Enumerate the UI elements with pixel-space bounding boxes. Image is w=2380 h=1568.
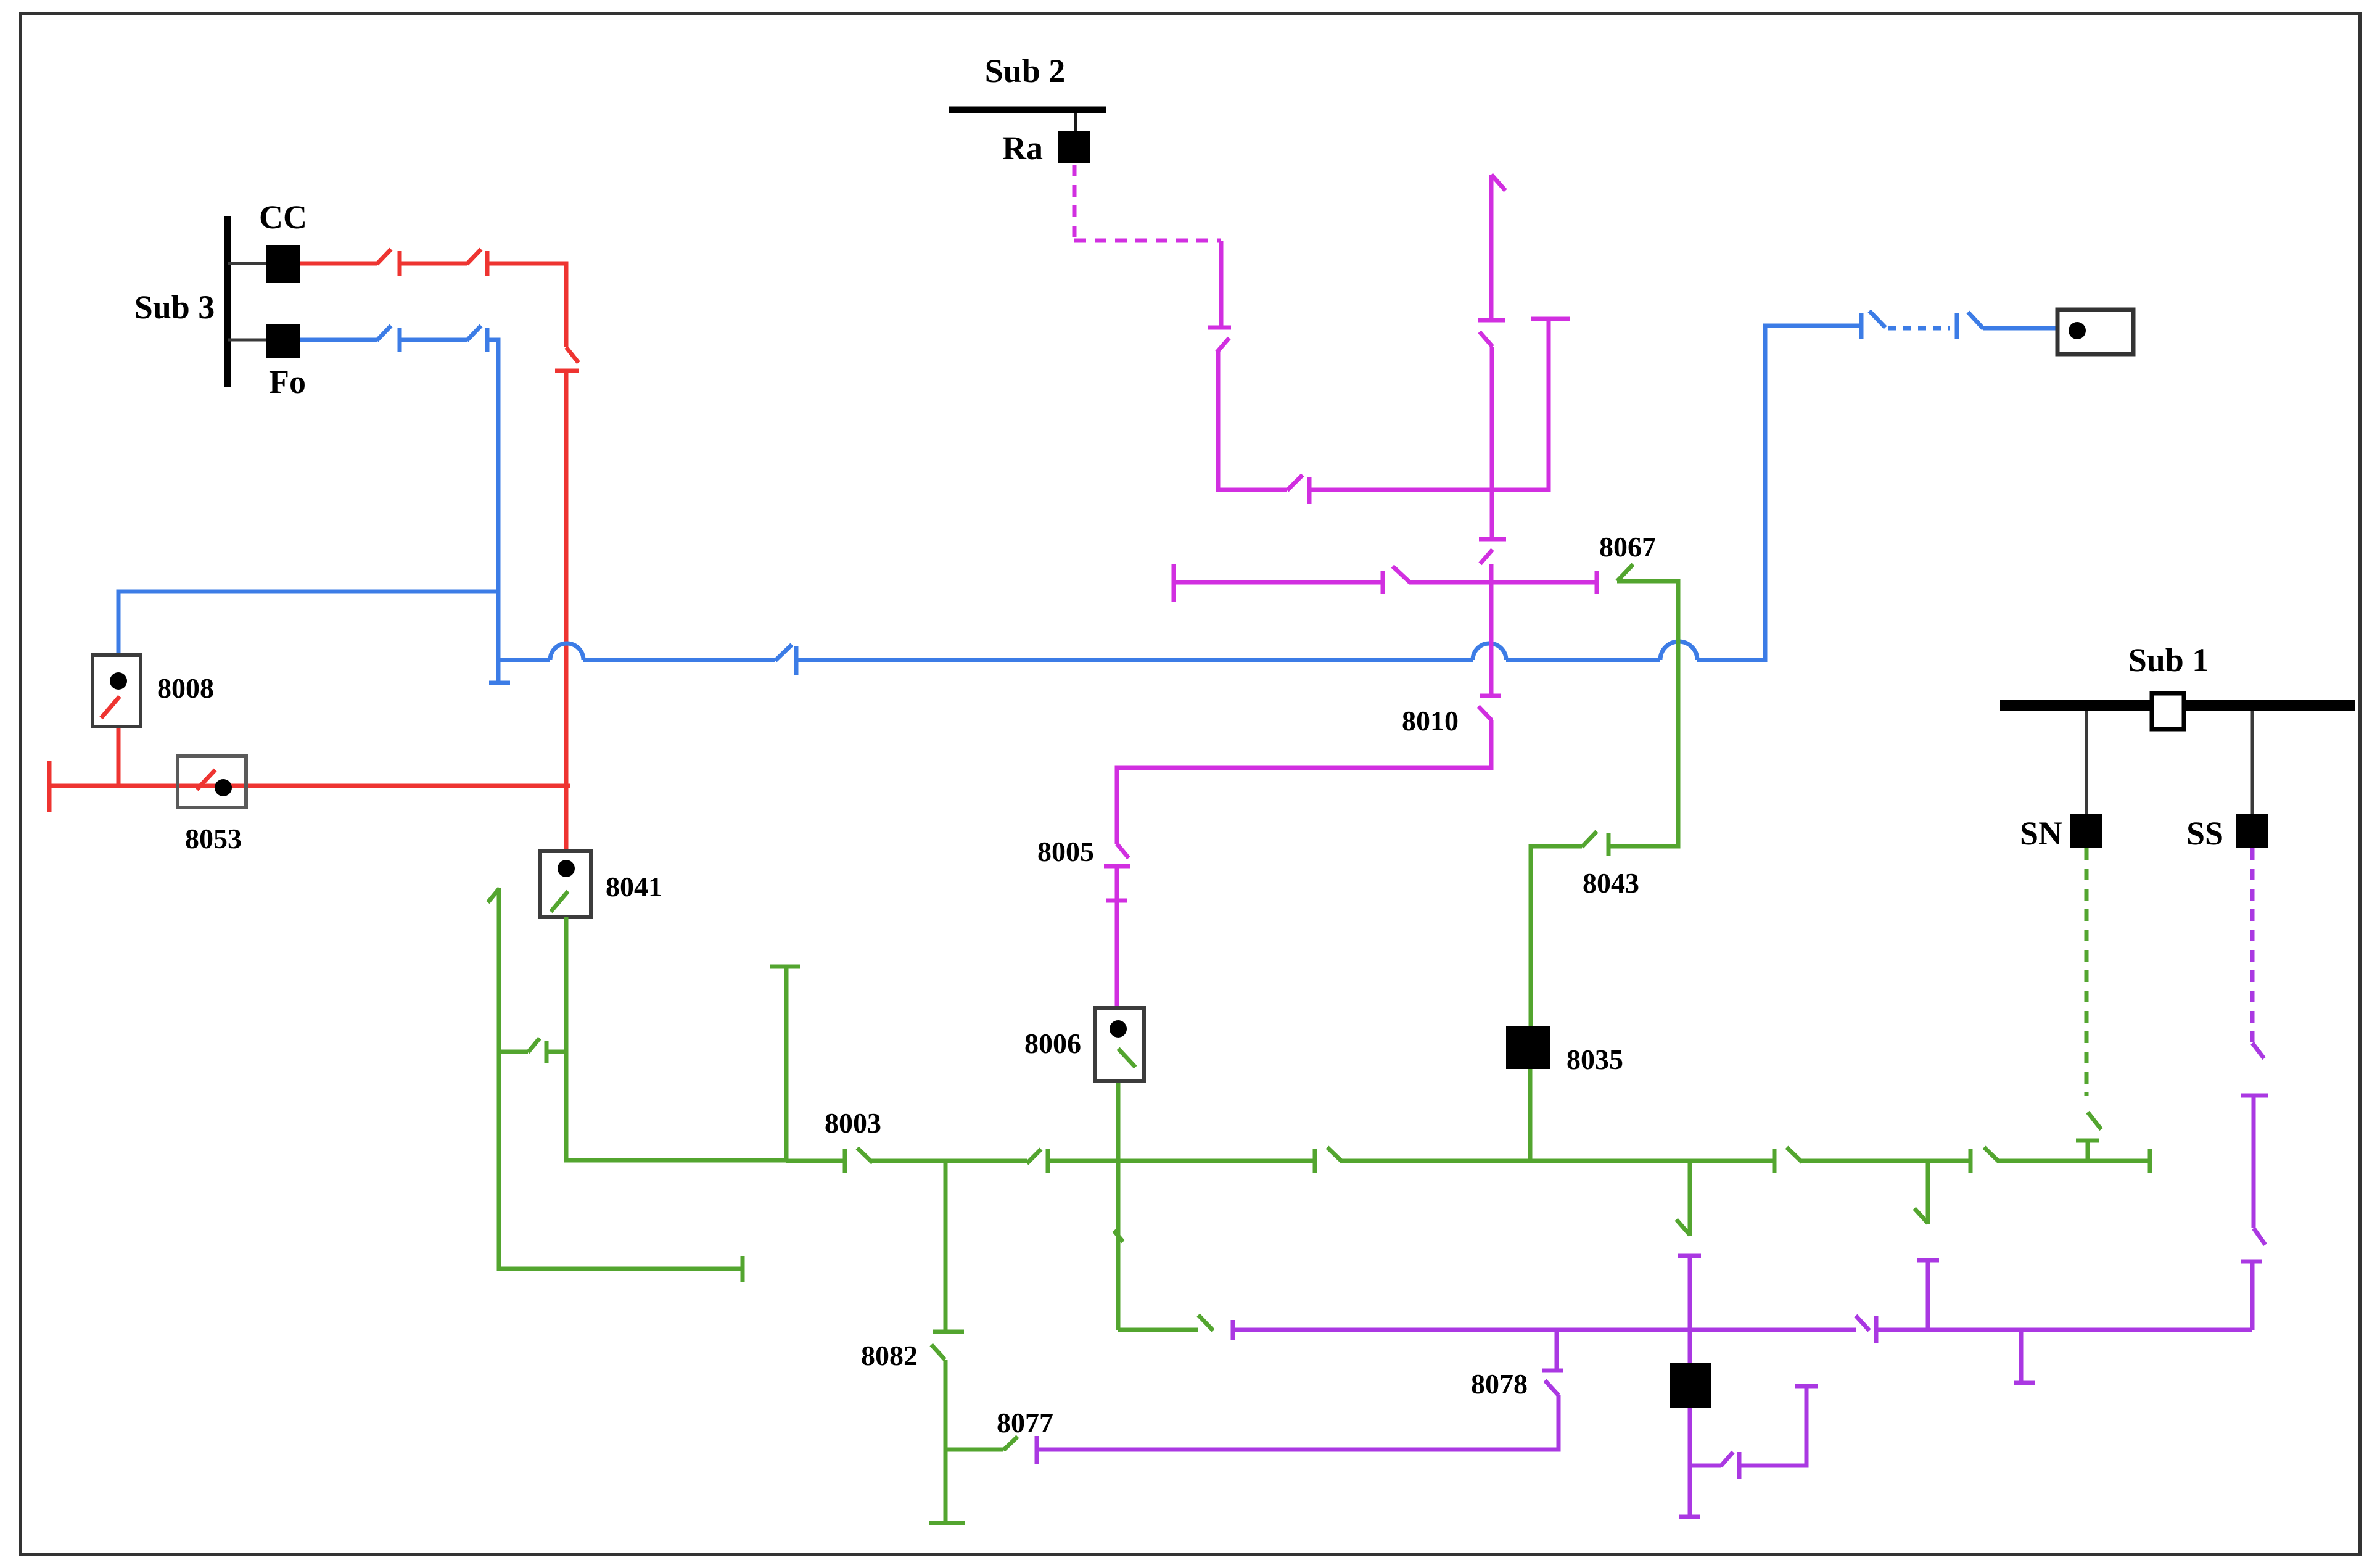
switch tick (8010 mid sw) bbox=[1479, 537, 1506, 542]
wire 8006 green below box bbox=[1116, 1081, 1121, 1330]
blade 8006 bbox=[1118, 1049, 1135, 1067]
wire 944 right bbox=[1409, 580, 1597, 585]
wire 8005 to 8006 box bbox=[1115, 866, 1119, 1008]
wire T-branch vertical bbox=[784, 967, 789, 1162]
switch tick (blue right sw2) bbox=[1955, 313, 1959, 339]
switch blade (8043) bbox=[1582, 831, 1597, 847]
white square on Sub1 bus bbox=[2152, 693, 2184, 729]
svg-text:8010: 8010 bbox=[1402, 705, 1459, 737]
wire 8003 main to switch bbox=[786, 1159, 845, 1163]
crossing arc over magenta vertical bbox=[1473, 643, 1506, 660]
wire 2740 vertical bbox=[1688, 1256, 1692, 1363]
blade 8053 bbox=[197, 770, 215, 790]
wire sw2 to corner bbox=[487, 263, 566, 347]
svg-text:Fo: Fo bbox=[269, 363, 306, 400]
switch tick (sw right1) bbox=[1773, 1149, 1777, 1173]
svg-text:8043: 8043 bbox=[1583, 867, 1639, 899]
wire CC to switch1 bbox=[300, 262, 377, 266]
wire 8003 main right bbox=[1998, 1159, 2150, 1163]
switch tick (8010 sw) bbox=[1480, 694, 1501, 698]
hook top of 8010 vertical bbox=[1491, 175, 1505, 191]
wire isolated bus 944 bbox=[1174, 580, 1383, 585]
crossing arc over green vertical bbox=[1660, 642, 1697, 660]
svg-text:CC: CC bbox=[259, 199, 307, 236]
red feeder from CC bbox=[49, 249, 579, 860]
switch tick (tie at 1681) bbox=[1035, 1436, 1039, 1464]
wire long 2156 horizontal bbox=[1233, 1328, 1856, 1332]
bus Sub 1 bbox=[2000, 700, 2355, 711]
breaker SN bbox=[2070, 814, 2102, 848]
box 8006 bbox=[1095, 1008, 1144, 1081]
wire backbone bbox=[583, 658, 775, 662]
terminal bar green bottom-left end bbox=[741, 1256, 745, 1282]
blade 8008 bbox=[101, 696, 120, 718]
switch tick (tie at 1999) bbox=[1231, 1320, 1235, 1340]
dot 8053 bbox=[215, 779, 232, 796]
switch blade (8010 sw) bbox=[1478, 706, 1492, 720]
wire 8003 main bbox=[1048, 1159, 1315, 1163]
wire SS to corner joining 2156 bbox=[2250, 1261, 2255, 1330]
switch blade (backbone sw) bbox=[775, 645, 792, 661]
switch tick (sw right2) bbox=[1969, 1149, 1973, 1173]
wire solid down bbox=[1219, 241, 1224, 326]
wire 8078 riser bbox=[1555, 1330, 1559, 1371]
box 8053 bbox=[178, 756, 246, 807]
switch tick (red sw1) bbox=[398, 251, 402, 276]
terminal bar left 944 bbox=[1172, 564, 1176, 602]
svg-text:Sub 1: Sub 1 bbox=[2128, 642, 2209, 679]
switch blade (SN tie) bbox=[2088, 1112, 2101, 1129]
wire 8010 vertical top bbox=[1489, 175, 1494, 319]
wire 8035 riser top corner bbox=[1531, 846, 1582, 1026]
wire red vertical down to 8041 bbox=[564, 371, 569, 860]
switch blade (8078) bbox=[1545, 1380, 1559, 1395]
breaker Fo bbox=[266, 324, 300, 358]
bus Sub 3 bbox=[224, 216, 231, 387]
blue feeder from Fo bbox=[118, 311, 2077, 683]
switch tick (blue sw2) bbox=[485, 328, 490, 352]
wire stub between verticals bbox=[499, 1050, 528, 1054]
wire SS vertical bbox=[2252, 1096, 2256, 1228]
dot top-right box bbox=[2069, 322, 2086, 339]
green network left bbox=[488, 564, 2150, 1523]
blade mark on 8006 vertical bbox=[1114, 1231, 1123, 1242]
wire stub bus-to-Fo bbox=[228, 339, 267, 342]
wire drop to SN bbox=[2085, 711, 2088, 815]
wire sw2 to corner down bbox=[487, 340, 498, 681]
terminal bar 3277 bottom bbox=[2014, 1381, 2035, 1385]
wire backbone bbox=[1506, 658, 1660, 662]
switch tick (blue right sw1) bbox=[1859, 313, 1864, 339]
magenta feeder from Ra bbox=[1074, 165, 1597, 1008]
svg-text:SS: SS bbox=[2186, 815, 2223, 852]
svg-text:8067: 8067 bbox=[1599, 531, 1656, 563]
switch blade (red vertical sw) bbox=[566, 347, 579, 363]
wire into box bbox=[1983, 326, 2077, 331]
hook blade (tie 3126) bbox=[1914, 1208, 1928, 1223]
wire SN dashed drop bbox=[2085, 848, 2089, 1096]
wire 794 horizontal to corner up bbox=[1309, 320, 1549, 490]
dot 8006 bbox=[1110, 1020, 1127, 1038]
svg-text:8003: 8003 bbox=[825, 1107, 881, 1139]
switch blade (blue sw2) bbox=[467, 326, 481, 340]
switch tick (SS sw1) bbox=[2241, 1094, 2268, 1098]
wire corner to tie bbox=[1118, 1328, 1198, 1332]
wire 2376 to riser bbox=[1739, 1386, 1806, 1466]
switch tick (944 sw) bbox=[1381, 571, 1385, 594]
hook blade (tie to magenta) bbox=[1198, 1315, 1213, 1331]
switch blade (794 sw) bbox=[1287, 475, 1303, 490]
dot 8008 bbox=[110, 672, 127, 690]
switch tick (8003 sw) bbox=[843, 1149, 847, 1173]
wire 8077 line bbox=[1037, 1395, 1559, 1450]
wire dashed horizontal bbox=[1074, 239, 1221, 243]
svg-text:Ra: Ra bbox=[1002, 130, 1043, 167]
wire drop to SS bbox=[2251, 711, 2254, 815]
switch tick (Ra sw) bbox=[1208, 326, 1231, 330]
wire 2740 below square bbox=[1688, 1408, 1692, 1516]
black square on 2740 bbox=[1670, 1363, 1711, 1408]
wire red horizontal main bbox=[49, 784, 570, 788]
wire blue backbone left bbox=[498, 658, 550, 662]
wire branch to 8008 bbox=[118, 592, 498, 656]
svg-text:8008: 8008 bbox=[157, 672, 214, 704]
wire 8010 corner to 8005 vertical bbox=[1117, 720, 1491, 844]
wire 8041 drop + corner to 8003 bbox=[566, 917, 786, 1160]
terminal bar 2929 top bbox=[1795, 1384, 1818, 1389]
terminal bar top of 2511 bbox=[1531, 317, 1570, 321]
switch tick (red vertical sw) bbox=[555, 369, 579, 373]
switch blade (sw right1) bbox=[1787, 1147, 1802, 1162]
wire stub to 8041 vertical bbox=[546, 1050, 566, 1054]
wire backbone right + corner up bbox=[1697, 326, 1861, 660]
switch blade (8082) bbox=[931, 1345, 945, 1360]
switch blade (sw after 8082) bbox=[1027, 1149, 1041, 1163]
wire left green vertical bbox=[499, 888, 743, 1269]
switch blade (blue right sw1) bbox=[1869, 311, 1885, 328]
wire 8010 vertical mid bbox=[1490, 347, 1494, 538]
blade 8041 bbox=[551, 891, 568, 912]
wire down to corner bbox=[1218, 352, 1287, 490]
svg-text:8041: 8041 bbox=[606, 871, 662, 902]
hook blade (8077 tie) bbox=[1003, 1437, 1018, 1450]
switch blade (8010 mid sw) bbox=[1480, 550, 1493, 564]
switch tick (794 sw) bbox=[1307, 477, 1312, 504]
wire dashed from Ra bbox=[1073, 165, 1077, 241]
wire 8077 stub bbox=[945, 1448, 1003, 1452]
wire Fo to switch1 bbox=[300, 338, 377, 342]
switch blade (sw mid) bbox=[1327, 1147, 1343, 1162]
svg-text:8006: 8006 bbox=[1024, 1028, 1081, 1059]
black square 8035 bbox=[1506, 1026, 1550, 1069]
switch tick (SN tie) bbox=[2076, 1139, 2099, 1143]
wire 8035 below square bbox=[1528, 1069, 1533, 1161]
switch tick (sw after 8082) bbox=[1046, 1149, 1050, 1173]
wire 8003 main bbox=[1341, 1159, 1774, 1163]
wire SN stub to 8003 bbox=[2086, 1141, 2090, 1162]
svg-text:Sub 3: Sub 3 bbox=[134, 289, 215, 326]
switch tick (8010 top sw) bbox=[1478, 318, 1505, 323]
wire stub Sub2-to-Ra bbox=[1074, 113, 1077, 133]
svg-text:8005: 8005 bbox=[1037, 836, 1094, 867]
wire dashed tie bbox=[1888, 326, 1950, 331]
svg-text:SN: SN bbox=[2020, 815, 2062, 852]
violet network bottom bbox=[1037, 848, 2268, 1517]
terminal bar T-branch top bbox=[770, 965, 800, 969]
switch blade (Ra sw) bbox=[1217, 338, 1229, 352]
svg-text:8035: 8035 bbox=[1567, 1044, 1623, 1075]
switch tick (2156 sw) bbox=[1874, 1316, 1879, 1343]
terminal bar 8003 right end bbox=[2148, 1149, 2152, 1173]
breaker CC bbox=[266, 245, 300, 283]
wire SS dashed bbox=[2250, 848, 2255, 1042]
switch blade (8005) bbox=[1117, 844, 1129, 858]
hook top of left green vertical bbox=[488, 888, 500, 902]
junction bar on 8005 wire bbox=[1106, 899, 1127, 903]
terminal bar red left end bbox=[47, 761, 52, 812]
terminal bar right 944 bbox=[1595, 571, 1599, 594]
wire 8003 main bbox=[871, 1159, 1027, 1163]
wire 8008 drop bbox=[117, 725, 121, 786]
switch blade (SS sw1) bbox=[2252, 1043, 2264, 1058]
wire sw1 to sw2 bbox=[400, 338, 467, 342]
svg-text:8077: 8077 bbox=[997, 1407, 1053, 1438]
wire 8010 vertical to corner bbox=[1489, 564, 1494, 696]
switch tick (stub sw) bbox=[545, 1041, 549, 1063]
switch blade (2156 sw) bbox=[1856, 1316, 1869, 1331]
switch blade (944 sw) bbox=[1393, 566, 1410, 582]
wire 8082 vertical upper bbox=[944, 1161, 948, 1331]
wire 3126 riser bbox=[1926, 1260, 1930, 1330]
wire 8082 vertical lower bbox=[944, 1360, 948, 1522]
switch tick (backbone sw) bbox=[794, 646, 799, 675]
switch tick (red sw2) bbox=[485, 251, 490, 276]
switch blade (8003 sw) bbox=[857, 1148, 873, 1163]
wire drop to tie at 3126 bbox=[1926, 1161, 1930, 1224]
switch blade (stub sw) bbox=[528, 1038, 540, 1052]
wire 8003 main bbox=[1801, 1159, 1970, 1163]
svg-text:Sub 2: Sub 2 bbox=[985, 52, 1066, 89]
box top-right tie bbox=[2057, 310, 2133, 354]
switch tick (blue sw1) bbox=[398, 328, 402, 352]
switch blade (red sw2) bbox=[467, 249, 481, 264]
breaker Ra bbox=[1058, 131, 1090, 163]
switch blade (blue right sw2) bbox=[1968, 312, 1983, 329]
switch blade (blue sw1) bbox=[377, 326, 391, 340]
wire 3277 drop bbox=[2019, 1330, 2024, 1382]
switch blade (SS sw2) bbox=[2254, 1228, 2265, 1245]
terminal bar 3126 top bbox=[1917, 1258, 1939, 1263]
box 8041 bbox=[540, 851, 591, 917]
box 8008 bbox=[93, 655, 141, 727]
wire 2156 horizontal right bbox=[1876, 1328, 2252, 1332]
switch blade (2376 sw) bbox=[1721, 1452, 1733, 1466]
terminal bar 2740 bottom bbox=[1679, 1515, 1700, 1519]
terminal bar 8082 bottom bbox=[929, 1521, 965, 1525]
switch tick (8082) bbox=[933, 1330, 964, 1334]
switch tick (2376 sw) bbox=[1737, 1452, 1742, 1479]
wire branch 2376 bbox=[1690, 1464, 1721, 1468]
switch blade (8067) bbox=[1617, 564, 1633, 581]
wire sw1 to sw2 bbox=[400, 262, 467, 266]
switch tick (SS sw2) bbox=[2241, 1260, 2262, 1264]
switch tick (8043) bbox=[1607, 833, 1611, 856]
dot 8041 bbox=[558, 860, 575, 877]
wire backbone middle bbox=[796, 658, 1473, 662]
hook blade (tie 2740) bbox=[1676, 1219, 1690, 1235]
terminal bar blue stub end bbox=[489, 681, 510, 685]
svg-text:8082: 8082 bbox=[861, 1340, 918, 1371]
switch tick (8005) bbox=[1104, 864, 1130, 869]
wire stub bus-to-CC bbox=[228, 262, 267, 265]
wire 8043 to corner bbox=[1608, 581, 1678, 846]
wire drop to tie at 2740 bbox=[1688, 1161, 1692, 1236]
svg-text:8078: 8078 bbox=[1471, 1368, 1528, 1400]
switch blade (sw right2) bbox=[1984, 1147, 1999, 1162]
crossing arc over red vertical bbox=[550, 643, 583, 660]
bus Sub 2 bbox=[949, 107, 1106, 113]
wire 2740 riser with tick bbox=[1678, 1254, 1701, 1258]
switch tick (sw mid) bbox=[1313, 1149, 1317, 1173]
svg-text:8053: 8053 bbox=[185, 823, 242, 854]
switch blade (red sw1) bbox=[377, 249, 391, 264]
switch blade (8010 top sw) bbox=[1480, 332, 1493, 347]
switch tick (8078) bbox=[1542, 1369, 1563, 1373]
breaker SS bbox=[2236, 814, 2268, 848]
